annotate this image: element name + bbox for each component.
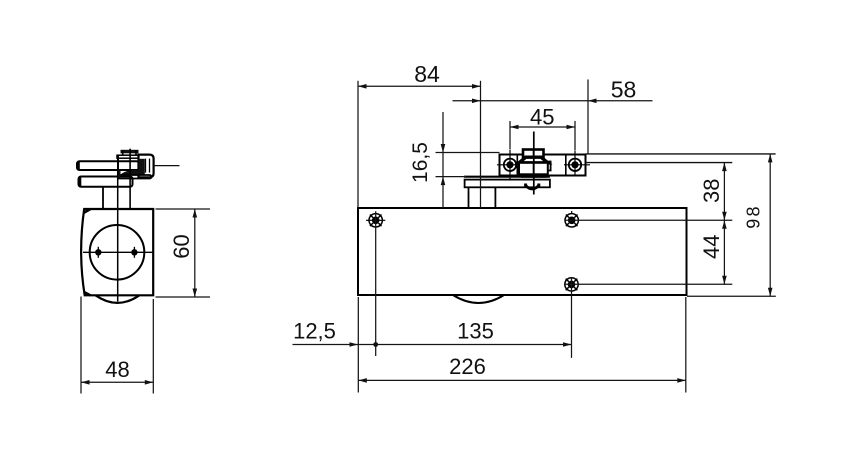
body circle bbox=[90, 225, 145, 280]
dim 226 line bbox=[358, 378, 686, 383]
bracket cap bbox=[121, 150, 139, 155]
body centerline bbox=[117, 171, 119, 302]
dim 16,5 extension bottom bbox=[436, 176, 467, 178]
dim 58 line bbox=[453, 99, 653, 104]
body bottom arc (plan) bbox=[453, 295, 504, 303]
pinion cap bbox=[523, 150, 544, 158]
bracket centerline bbox=[129, 149, 131, 209]
screw hole top-left bbox=[366, 214, 385, 227]
dim 44 line bbox=[722, 220, 727, 284]
dim 84 extension left bbox=[357, 81, 359, 208]
arm bracket (plan) bbox=[500, 155, 586, 176]
pinion bottom arc bbox=[526, 184, 539, 189]
body corner chamfers bbox=[83, 209, 90, 295]
svg-text:48: 48 bbox=[105, 357, 129, 382]
svg-text:84: 84 bbox=[414, 61, 440, 87]
arm bottom line (plan) bbox=[586, 162, 733, 164]
arm fixing screw left bbox=[497, 150, 523, 179]
dim 45 extension left bbox=[509, 121, 511, 150]
svg-text:98: 98 bbox=[744, 204, 764, 228]
arm top bar bbox=[77, 161, 139, 170]
bracket base thick edge bbox=[464, 176, 550, 178]
dim 38/44 extension middle bbox=[565, 219, 732, 221]
arm axis line bbox=[154, 165, 180, 167]
dim 58 extension bbox=[587, 80, 589, 154]
bracket frame bbox=[117, 155, 139, 158]
dim 98 line bbox=[768, 154, 773, 296]
body bottom arc bbox=[96, 295, 140, 303]
svg-text:44: 44 bbox=[699, 235, 724, 259]
svg-text:45: 45 bbox=[530, 105, 554, 130]
plate foot right bbox=[494, 187, 496, 208]
bracket shoe bbox=[139, 155, 154, 178]
dim 226 extension right bbox=[685, 297, 687, 393]
dim 45 extension right bbox=[574, 121, 576, 150]
dim 45 line bbox=[510, 125, 575, 130]
dim 16,5 extension top bbox=[436, 152, 500, 154]
dim 60 line bbox=[193, 209, 198, 297]
dim 84 extension right bbox=[480, 81, 482, 208]
dim 48 line bbox=[81, 380, 153, 385]
svg-text:12,5: 12,5 bbox=[293, 318, 336, 343]
svg-text:16,5: 16,5 bbox=[409, 142, 432, 183]
spindle bbox=[102, 187, 104, 209]
dim 84 line bbox=[358, 84, 481, 89]
dim 38 line bbox=[722, 163, 727, 221]
dim 226 extension left bbox=[357, 297, 359, 393]
pinion centerline bbox=[533, 132, 535, 195]
bracket elbow dark wedge bbox=[120, 170, 139, 175]
mounting plate under bracket bbox=[465, 180, 550, 188]
screw hole top-right bbox=[565, 211, 578, 227]
screw center line bbox=[83, 251, 153, 253]
closer body (side view) bbox=[81, 209, 153, 295]
dim 60 extension lines bbox=[156, 209, 211, 297]
dim 48 extension lines bbox=[81, 297, 153, 394]
svg-text:58: 58 bbox=[611, 77, 637, 103]
svg-text:60: 60 bbox=[169, 234, 194, 258]
screw dot left bbox=[95, 249, 101, 255]
arm top line (plan) bbox=[586, 153, 776, 155]
dim 135 extension via top-left screw bbox=[375, 211, 377, 356]
dim 98 extension bottom bbox=[687, 295, 776, 297]
dim 16,5 line bbox=[441, 112, 446, 208]
arm second bar bbox=[79, 177, 133, 187]
bracket bottom plate bbox=[118, 175, 152, 179]
closer body plate bbox=[358, 208, 687, 295]
arm fixing screw right bbox=[564, 150, 590, 175]
dim 12,5 / 135 line bbox=[293, 342, 572, 347]
pinion band bbox=[519, 157, 548, 163]
dim 38/44 extension bottom bbox=[565, 283, 732, 285]
screw dot right bbox=[131, 249, 137, 255]
screw hole bottom-right bbox=[565, 278, 578, 291]
svg-text:226: 226 bbox=[449, 354, 486, 379]
svg-text:38: 38 bbox=[699, 179, 724, 203]
pinion housing bbox=[519, 162, 551, 177]
dim 135 extension via bottom-right screw bbox=[571, 277, 573, 358]
bracket left edge bbox=[117, 155, 121, 178]
svg-text:135: 135 bbox=[457, 318, 494, 343]
plate foot left bbox=[468, 187, 470, 208]
